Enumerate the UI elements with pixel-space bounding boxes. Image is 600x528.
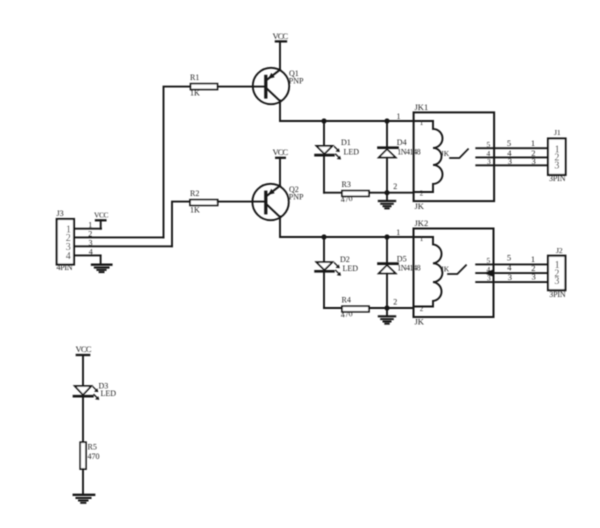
wire J3.3 to riser xyxy=(74,245,172,247)
svg-text:3: 3 xyxy=(554,276,559,287)
resistor R2 xyxy=(190,189,218,214)
svg-text:R4: R4 xyxy=(342,295,351,304)
wire JK2.5 to J2.1 xyxy=(476,263,548,265)
power VCC (J3 pin1) xyxy=(94,210,109,228)
wire JK1.4 to J1.2 xyxy=(476,156,548,158)
ground (D3 chain) xyxy=(74,495,95,503)
svg-text:LED: LED xyxy=(343,264,359,273)
svg-text:470: 470 xyxy=(88,452,100,461)
wire Q1 collector to JK1 pin1 row xyxy=(280,101,433,122)
wire J3.4 to ground xyxy=(74,254,101,256)
svg-text:1: 1 xyxy=(396,228,400,237)
svg-text:3PIN: 3PIN xyxy=(549,290,566,299)
resistor R3 xyxy=(340,180,369,204)
wire R2 to Q2 base xyxy=(218,201,265,203)
svg-text:1N4148: 1N4148 xyxy=(397,147,420,156)
svg-text:JK: JK xyxy=(415,201,425,211)
svg-text:1K: 1K xyxy=(190,206,200,215)
svg-text:1N4148: 1N4148 xyxy=(397,263,420,272)
wire JK1.5 to J1.1 xyxy=(476,147,548,149)
transistor Q1 xyxy=(253,68,304,104)
svg-text:3: 3 xyxy=(508,156,512,166)
svg-text:5: 5 xyxy=(487,256,491,265)
svg-text:JK2: JK2 xyxy=(415,218,429,228)
svg-text:470: 470 xyxy=(340,309,353,320)
svg-text:3: 3 xyxy=(89,239,93,248)
svg-text:470: 470 xyxy=(340,194,353,205)
svg-text:5: 5 xyxy=(507,252,511,262)
svg-text:R5: R5 xyxy=(88,443,97,452)
transistor Q2 xyxy=(252,184,304,220)
svg-text:J1: J1 xyxy=(554,128,561,137)
svg-text:JK: JK xyxy=(441,149,450,158)
LED D1 xyxy=(316,121,360,193)
svg-text:3: 3 xyxy=(532,156,536,166)
wire R5 to ground xyxy=(82,469,84,495)
svg-text:VCC: VCC xyxy=(273,31,289,41)
svg-text:3: 3 xyxy=(508,272,512,282)
connector J3 4PIN xyxy=(57,209,75,272)
svg-text:3: 3 xyxy=(554,161,559,172)
svg-text:2: 2 xyxy=(420,189,424,197)
wire D3 to R5 xyxy=(82,398,84,443)
svg-text:3: 3 xyxy=(487,274,491,283)
svg-text:J3: J3 xyxy=(57,209,64,218)
node junction D5/row1 xyxy=(384,234,389,239)
ground (J3 pin4) xyxy=(92,255,111,272)
svg-text:3PIN: 3PIN xyxy=(549,174,566,183)
wire J3.3 riser to R2 xyxy=(172,202,190,247)
node junction D4/row1 xyxy=(384,118,389,123)
svg-text:4PIN: 4PIN xyxy=(57,263,73,272)
wire R4 to JK2 pin2 xyxy=(369,307,414,309)
svg-text:4: 4 xyxy=(66,251,71,262)
node junction D4/R3/gnd xyxy=(384,190,389,195)
power VCC (D3 chain) xyxy=(76,344,92,386)
svg-text:2: 2 xyxy=(393,297,397,306)
wire R3 to JK1 pin2 xyxy=(369,192,414,194)
power VCC (Q1 emitter supply) xyxy=(273,31,289,70)
svg-text:LED: LED xyxy=(344,147,360,156)
ground (channel 2) xyxy=(379,308,395,324)
wire Q2 collector to JK2 pin1 row xyxy=(280,217,433,238)
wire J3.1 to VCC xyxy=(74,228,101,230)
svg-text:5: 5 xyxy=(507,138,511,148)
svg-text:PNP: PNP xyxy=(289,76,304,85)
wire R1 to Q1 base xyxy=(218,86,265,88)
diode D4 1N4148 xyxy=(379,121,421,193)
svg-text:JK: JK xyxy=(441,264,450,273)
resistor R1 xyxy=(190,73,218,97)
svg-text:VCC: VCC xyxy=(273,147,289,157)
relay JK2 xyxy=(414,218,494,327)
svg-text:3: 3 xyxy=(532,272,536,282)
node junction D5/R4/gnd xyxy=(384,305,389,310)
LED D3 xyxy=(74,381,116,400)
svg-text:J2: J2 xyxy=(556,246,563,255)
svg-text:R1: R1 xyxy=(190,73,199,82)
wire J3.2 riser to R1 xyxy=(164,87,191,238)
power VCC (Q2 emitter supply) xyxy=(273,147,289,186)
svg-text:1K: 1K xyxy=(190,88,200,97)
svg-text:1: 1 xyxy=(531,138,535,148)
svg-text:VCC: VCC xyxy=(76,344,92,354)
ground (channel 1) xyxy=(379,193,395,209)
svg-text:LED: LED xyxy=(101,389,117,398)
svg-text:4: 4 xyxy=(89,248,93,257)
node junction D2/row1 xyxy=(321,234,326,239)
svg-text:1: 1 xyxy=(397,112,401,121)
svg-text:1: 1 xyxy=(420,119,424,127)
svg-text:2: 2 xyxy=(393,182,397,191)
svg-text:D4: D4 xyxy=(397,138,407,147)
wire JK2.3 to J2.3 xyxy=(476,281,548,283)
svg-text:R2: R2 xyxy=(190,189,199,198)
wire J3.2 to riser xyxy=(74,236,164,238)
svg-text:4: 4 xyxy=(507,262,512,272)
diode D5 1N4148 xyxy=(379,237,421,308)
connector J1 3PIN xyxy=(548,128,566,183)
node arrow on JK2.4 wire xyxy=(484,270,493,277)
svg-text:3: 3 xyxy=(487,157,491,166)
wire JK1.3 to J1.3 xyxy=(476,164,548,166)
relay JK1 xyxy=(414,102,495,211)
svg-text:D1: D1 xyxy=(341,138,351,147)
wire D1 to R3 xyxy=(324,192,342,194)
svg-text:1: 1 xyxy=(420,235,424,243)
resistor R4 xyxy=(340,295,369,319)
svg-text:JK: JK xyxy=(415,317,425,327)
svg-text:1: 1 xyxy=(88,220,92,229)
svg-text:R3: R3 xyxy=(342,180,351,189)
svg-text:PNP: PNP xyxy=(289,192,304,201)
resistor R5 xyxy=(80,442,99,469)
node junction D1/row1 xyxy=(321,118,326,123)
svg-text:VCC: VCC xyxy=(94,210,109,219)
LED D2 xyxy=(316,237,359,308)
wire D2 to R4 xyxy=(324,307,342,309)
svg-text:2: 2 xyxy=(88,230,92,239)
connector J2 3PIN xyxy=(548,246,566,299)
svg-text:JK1: JK1 xyxy=(415,102,429,112)
svg-text:5: 5 xyxy=(487,140,491,149)
wire JK2.4 to J2.2 xyxy=(476,272,548,274)
svg-text:D5: D5 xyxy=(397,255,407,264)
